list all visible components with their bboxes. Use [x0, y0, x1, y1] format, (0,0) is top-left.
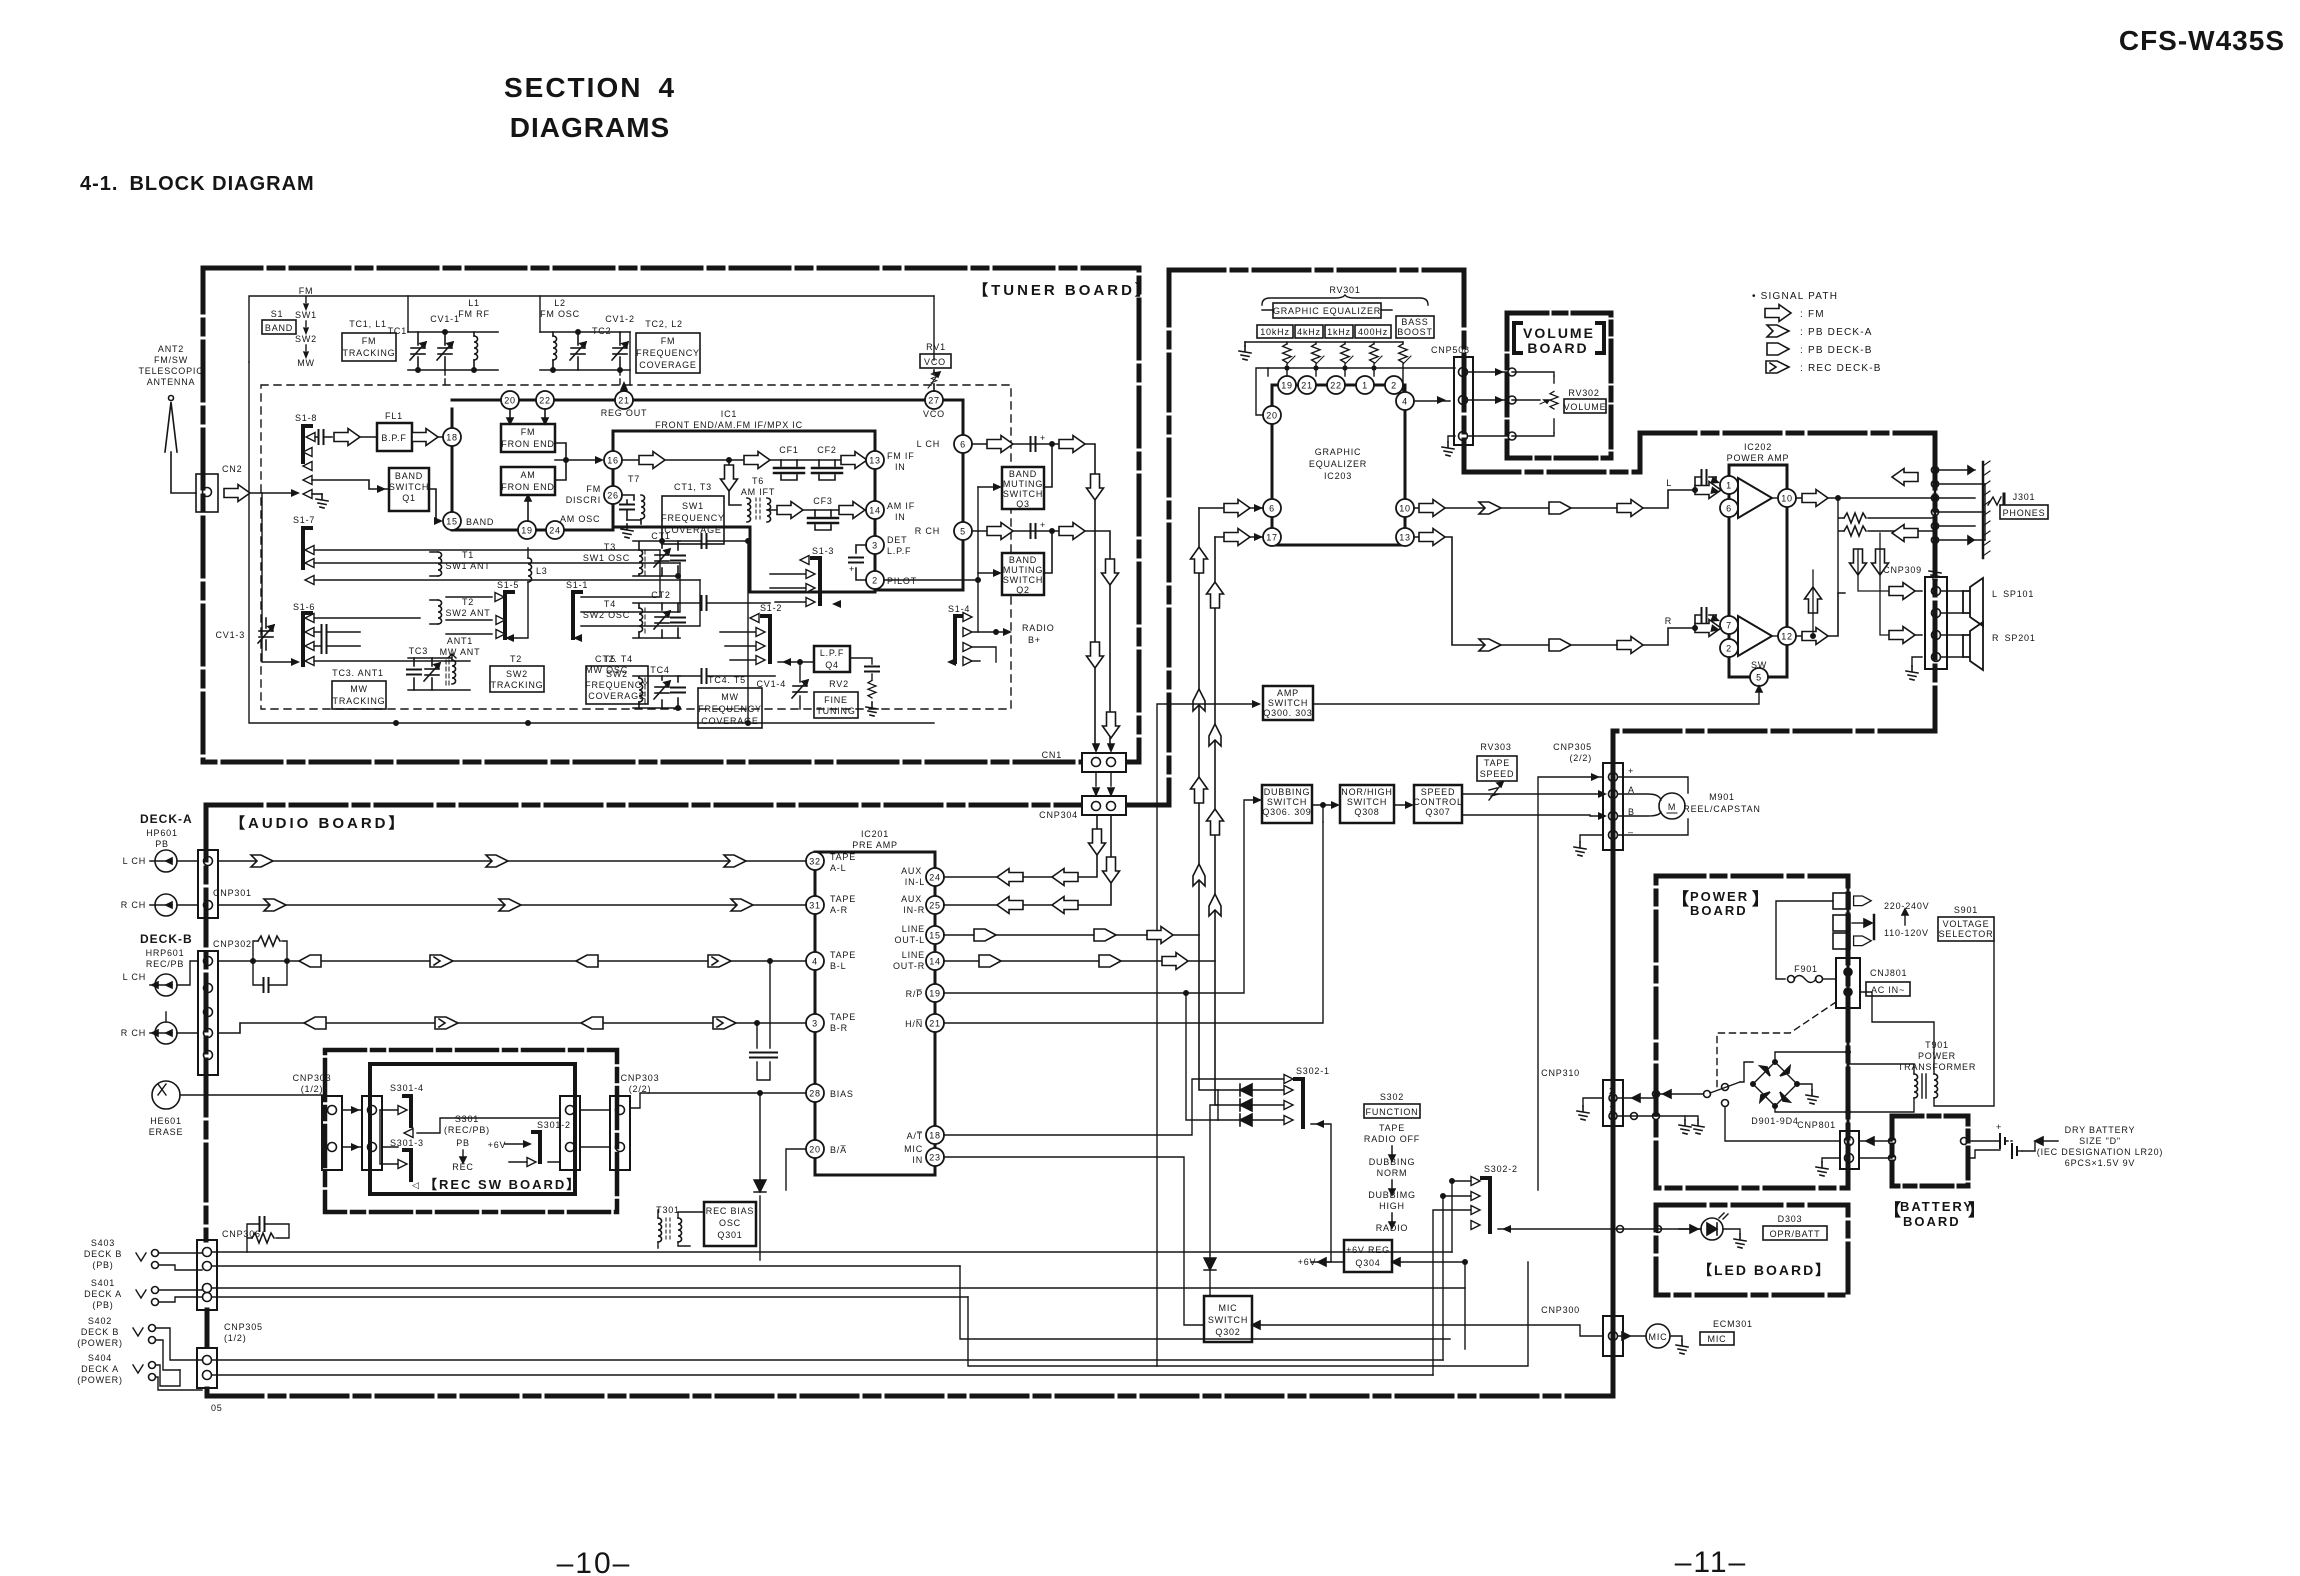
wire Q3 output to L line	[1044, 444, 1052, 487]
boxed label 400Hz	[1355, 325, 1391, 338]
IC203 pin 13	[1396, 528, 1414, 546]
svg-text:BAND: BAND	[466, 517, 494, 527]
svg-text:SECTION 4: SECTION 4	[504, 72, 676, 103]
wire S302-2 common to CNP310 column	[1498, 1228, 1700, 1230]
svg-text:3: 3	[872, 541, 878, 551]
svg-text:AM: AM	[520, 470, 535, 480]
svg-text:–10–: –10–	[557, 1547, 632, 1576]
svg-text:S402: S402	[88, 1316, 112, 1326]
svg-text:MW: MW	[297, 358, 315, 368]
wire H/N riser to dubbing junction	[1322, 805, 1324, 822]
svg-text:FREQUENCY: FREQUENCY	[585, 680, 649, 690]
svg-text:Q300. 303: Q300. 303	[1263, 708, 1312, 718]
svg-text:MIC: MIC	[1219, 1303, 1238, 1313]
boxed label BASS BOOST	[1396, 316, 1434, 338]
EQ output bus to CNP508	[1268, 368, 1455, 376]
svg-text:BAND: BAND	[1009, 469, 1037, 479]
op-amp triangle L	[1738, 478, 1772, 518]
block AMP SWITCH Q300,303	[1263, 686, 1313, 720]
svg-text:】: 】	[1968, 1200, 1985, 1220]
changeover switch	[1704, 1091, 1711, 1098]
svg-text:D901-9D4: D901-9D4	[1751, 1116, 1798, 1126]
svg-text:IC1: IC1	[721, 409, 737, 419]
IC201 pin 4 TAPE B-L	[806, 952, 824, 970]
svg-text:COVERAGE: COVERAGE	[588, 691, 645, 701]
svg-text:12: 12	[1781, 632, 1793, 642]
svg-text:HRP601: HRP601	[146, 948, 185, 958]
svg-text:TAPE: TAPE	[1484, 758, 1510, 768]
svg-text:CNP309: CNP309	[1883, 565, 1922, 575]
power board border	[1656, 876, 1848, 1188]
EQ wiper arrows to pins	[1287, 356, 1411, 364]
input capacitor to pin 1	[1695, 477, 1716, 490]
IC201 pin 3 TAPE B-R	[806, 1014, 824, 1032]
tank T4 SW2 OSC	[583, 599, 630, 620]
IC203 pin 17	[1263, 528, 1281, 546]
svg-text:R: R	[1665, 616, 1672, 626]
svg-text:(POWER): (POWER)	[77, 1375, 123, 1385]
EQ resistors RV301 a-e	[1283, 344, 1292, 363]
svg-text:FRON END: FRON END	[501, 482, 554, 492]
svg-text:PHONES: PHONES	[2003, 508, 2046, 518]
svg-text:DISCRI: DISCRI	[566, 495, 601, 505]
svg-text:RV303: RV303	[1480, 742, 1511, 752]
feedback resistors at phones	[1838, 498, 1935, 593]
svg-text:FINE: FINE	[824, 695, 848, 705]
wire pin 20 to EQ rail	[1256, 368, 1268, 415]
battery board label	[1884, 1199, 1985, 1229]
volume board wiring	[1512, 372, 1554, 436]
svg-text:CNP801: CNP801	[1797, 1120, 1836, 1130]
IC201 pin 20 B/A	[806, 1140, 824, 1158]
svg-text:B+: B+	[1028, 635, 1041, 645]
svg-text:CNJ801: CNJ801	[1870, 968, 1907, 978]
svg-text:SW2: SW2	[506, 669, 528, 679]
tuner gang dashed frame	[261, 385, 1011, 709]
power bus column	[1611, 731, 1616, 1396]
svg-text:20: 20	[504, 396, 516, 406]
svg-text:HE601: HE601	[150, 1116, 182, 1126]
svg-text:L.P.F: L.P.F	[820, 648, 844, 658]
label S301 REC/PB	[444, 1114, 490, 1172]
wire from CNP303 outer down to T301	[620, 1170, 658, 1210]
RC network at deck-B input	[253, 941, 287, 961]
audio board top border	[206, 803, 1169, 808]
audio board left border	[204, 805, 209, 1240]
transformer T1 SW1 ANT	[445, 550, 490, 571]
svg-text:B-R: B-R	[830, 1023, 848, 1033]
svg-text:T901: T901	[1925, 1040, 1949, 1050]
long riser from tank bus to bottom rail	[747, 541, 749, 723]
IC1 pins 19 and 24 AM OSC	[518, 521, 536, 539]
svg-text:T301: T301	[656, 1205, 680, 1215]
svg-text:S1-1: S1-1	[566, 580, 588, 590]
svg-text:DUBBING: DUBBING	[1264, 787, 1311, 797]
svg-text:18: 18	[929, 1131, 941, 1141]
wire LINE OUT-R pin 14 to riser	[944, 960, 1215, 962]
svg-text:R CH: R CH	[915, 526, 940, 536]
svg-text:L.P.F: L.P.F	[887, 546, 911, 556]
svg-text:SELECTOR: SELECTOR	[1939, 929, 1994, 939]
svg-text:RADIO OFF: RADIO OFF	[1364, 1134, 1420, 1144]
svg-text:NOR/HIGH: NOR/HIGH	[1341, 787, 1392, 797]
svg-text:T3: T3	[604, 542, 616, 552]
svg-text:+6V: +6V	[1298, 1257, 1317, 1267]
svg-text:CT2: CT2	[651, 590, 670, 600]
wire deck-B L to pin 4	[218, 960, 806, 962]
svg-text:CONTROL: CONTROL	[1413, 797, 1463, 807]
coil L2 FM OSC	[540, 298, 580, 319]
connector CN2	[196, 474, 218, 512]
svg-text:L: L	[1666, 478, 1672, 488]
FM arrow into pin 13	[841, 452, 867, 469]
legend PB DECK-B arrow	[1767, 343, 1789, 355]
svg-text:A-R: A-R	[830, 905, 848, 915]
IC1 pin 21	[615, 391, 633, 409]
IC202 pin 7	[1720, 616, 1738, 634]
svg-text:CNP508: CNP508	[1431, 345, 1470, 355]
svg-text:+6V: +6V	[488, 1140, 507, 1150]
svg-text:【: 【	[1672, 889, 1689, 909]
svg-text:+: +	[1040, 520, 1046, 530]
svg-text:L2: L2	[554, 298, 566, 308]
svg-text:FREQUENCY: FREQUENCY	[698, 704, 762, 714]
svg-text:: PB DECK-A: : PB DECK-A	[1800, 327, 1873, 338]
label HP601 PB	[146, 828, 178, 849]
svg-text:FUNCTION: FUNCTION	[1366, 1107, 1419, 1117]
power board label	[1672, 889, 1769, 918]
svg-text:DECK B: DECK B	[84, 1249, 122, 1259]
svg-text:GRAPHIC EQUALIZER: GRAPHIC EQUALIZER	[1273, 306, 1381, 316]
svg-text:BAND: BAND	[1009, 555, 1037, 565]
svg-text:OPR/BATT: OPR/BATT	[1770, 1229, 1821, 1239]
svg-text:CNP302: CNP302	[213, 939, 252, 949]
riser bus R from line out	[1215, 537, 1218, 1105]
wire CN2 to S1-8	[251, 492, 296, 494]
open arrows into jack	[1892, 469, 1918, 486]
svg-text:4-1. BLOCK DIAGRAM: 4-1. BLOCK DIAGRAM	[80, 173, 315, 195]
svg-text:SW1 OSC: SW1 OSC	[583, 553, 630, 563]
IC202 pin 12	[1778, 627, 1796, 645]
svg-text:SW1 ANT: SW1 ANT	[445, 561, 490, 571]
legend FM arrow	[1765, 305, 1791, 322]
svg-text:24: 24	[549, 526, 561, 536]
IC1 top bus REG OUT	[452, 399, 963, 402]
svg-text:T5: T5	[604, 654, 616, 664]
svg-text:ECM301: ECM301	[1713, 1319, 1753, 1329]
IC203 pin 6	[1263, 499, 1281, 517]
svg-text:SWITCH: SWITCH	[1003, 575, 1043, 585]
block SPEED CONTROL Q307	[1414, 785, 1462, 823]
svg-text:T4: T4	[604, 599, 616, 609]
svg-text:S401: S401	[91, 1278, 115, 1288]
svg-text:VOLUME: VOLUME	[1564, 402, 1607, 412]
svg-text:SWITCH: SWITCH	[1267, 797, 1307, 807]
wire S1-8 row to Q1	[312, 480, 389, 489]
ground at CNP305 minus	[1580, 835, 1603, 842]
svg-text:AUX: AUX	[901, 894, 922, 904]
svg-text:IN-L: IN-L	[905, 877, 925, 887]
svg-text:Q2: Q2	[1016, 585, 1030, 595]
FM OSC tank rails	[540, 332, 630, 370]
transformer T2 SW2 ANT	[445, 597, 490, 618]
svg-text:(1/2): (1/2)	[224, 1333, 247, 1343]
down arrows to speaker connector	[1858, 526, 1880, 588]
selector arrows	[1854, 896, 1872, 906]
wire AUX IN-R pin 25	[944, 814, 1111, 905]
svg-text:SW2 ANT: SW2 ANT	[445, 608, 490, 618]
svg-text:: REC DECK-B: : REC DECK-B	[1800, 363, 1882, 374]
svg-text:Q301: Q301	[717, 1230, 742, 1240]
svg-text:IN: IN	[912, 1155, 923, 1165]
svg-text:24: 24	[929, 873, 941, 883]
svg-text:REC BIAS: REC BIAS	[706, 1206, 754, 1216]
svg-text:OUT-L: OUT-L	[894, 935, 925, 945]
svg-text:TC1, L1: TC1, L1	[349, 319, 387, 329]
wire R/P pin 19	[944, 800, 1260, 1120]
wire AMP SWITCH to IC202 pin 5	[1313, 690, 1759, 704]
svg-text:SPEED: SPEED	[1421, 787, 1456, 797]
svg-text:1: 1	[1726, 481, 1732, 491]
svg-text:POWER AMP: POWER AMP	[1727, 453, 1790, 463]
svg-text:S1-4: S1-4	[948, 604, 970, 614]
svg-text:F901: F901	[1794, 964, 1818, 974]
svg-text:MUTING: MUTING	[1003, 565, 1043, 575]
svg-text:MIC: MIC	[1649, 1332, 1668, 1342]
svg-text:S1-3: S1-3	[812, 546, 834, 556]
svg-text:25: 25	[929, 901, 941, 911]
svg-text:5: 5	[1756, 673, 1762, 683]
svg-text:Q4: Q4	[825, 660, 839, 670]
svg-text:M901: M901	[1709, 792, 1735, 802]
IC1 left bus	[451, 409, 454, 528]
IC203 pin 10	[1396, 499, 1414, 517]
wire Q307 to CNP305 pin B	[1462, 815, 1603, 816]
IC1 pin 5 R CH	[954, 522, 972, 540]
svg-text:FRONT END/AM.FM IF/MPX IC: FRONT END/AM.FM IF/MPX IC	[655, 420, 803, 430]
wire AM FRON END to AM OSC bus	[527, 499, 529, 521]
svg-text:S1-2: S1-2	[760, 603, 782, 613]
S1 BAND boxed label	[262, 320, 296, 334]
svg-text:S1-8: S1-8	[295, 413, 317, 423]
wire A/T pin 18	[944, 1079, 1284, 1135]
svg-text:RV2: RV2	[829, 679, 849, 689]
bias wire pin 28 to CNP303	[631, 1093, 806, 1108]
svg-text:FM OSC: FM OSC	[540, 309, 580, 319]
switch S403 DECK B (PB)	[84, 1238, 122, 1270]
svg-text:21: 21	[1301, 381, 1313, 391]
block MIC SWITCH Q302	[1204, 1296, 1252, 1342]
svg-text:1kHz: 1kHz	[1327, 327, 1351, 337]
wire into LED	[1679, 1228, 1701, 1230]
dry battery label	[2037, 1125, 2163, 1168]
IC1 pin 2 PILOT	[866, 571, 884, 589]
wire S1-2 to L.P.F	[778, 661, 814, 663]
speaker SP201 R	[1941, 635, 1963, 657]
svg-text:VCO: VCO	[923, 409, 945, 419]
long wires lower area	[960, 1262, 1528, 1366]
svg-text:T2: T2	[510, 654, 522, 664]
tuner board border	[203, 268, 1139, 762]
svg-text:NORM: NORM	[1377, 1168, 1408, 1178]
switch S402 DECK B (POWER)	[77, 1316, 123, 1348]
svg-text:TAPE: TAPE	[830, 894, 856, 904]
svg-text:ANT1: ANT1	[447, 636, 473, 646]
IC1 labels	[655, 409, 803, 430]
svg-text:AM IFT: AM IFT	[741, 487, 775, 497]
svg-text:S403: S403	[91, 1238, 115, 1248]
svg-text:SWITCH: SWITCH	[1003, 489, 1043, 499]
led board border	[1656, 1205, 1848, 1295]
svg-text:FREQUENCY: FREQUENCY	[636, 348, 700, 358]
IC201 pin 14 LINE OUT-R	[926, 952, 944, 970]
erase head HE601	[152, 1081, 180, 1109]
boxed label 10kHz	[1257, 325, 1293, 338]
svg-text:S301: S301	[455, 1114, 479, 1124]
svg-text:PRE AMP: PRE AMP	[852, 840, 898, 850]
svg-text:CV1-2: CV1-2	[605, 314, 635, 324]
svg-text:05: 05	[211, 1403, 223, 1413]
svg-text:H/N̅: H/N̅	[905, 1019, 923, 1029]
junction dots FM RF tank	[416, 368, 420, 372]
svg-text:CN2: CN2	[222, 464, 242, 474]
svg-text:27: 27	[928, 396, 940, 406]
tank T3 SW1 OSC	[583, 542, 630, 563]
svg-text:GRAPHIC: GRAPHIC	[1315, 447, 1362, 457]
svg-text:Q3: Q3	[1016, 499, 1030, 509]
wire CN2 feed to switch column	[262, 493, 296, 662]
svg-text:L CH: L CH	[917, 439, 940, 449]
FM arrows down the L/R drop wires	[1087, 474, 1104, 500]
svg-text:SIZE "D": SIZE "D"	[2079, 1136, 2121, 1146]
svg-text:4kHz: 4kHz	[1297, 327, 1321, 337]
svg-text:D303: D303	[1778, 1214, 1803, 1224]
svg-text:S302: S302	[1380, 1092, 1404, 1102]
svg-text:FM/SW: FM/SW	[154, 355, 188, 365]
volume board border	[1507, 313, 1611, 458]
block BAND SWITCH Q1	[389, 468, 429, 511]
svg-text:REG OUT: REG OUT	[601, 408, 648, 418]
svg-text:MW: MW	[721, 692, 739, 702]
ground EQ rail	[1244, 342, 1246, 346]
svg-text:AM IF: AM IF	[887, 501, 915, 511]
wire deck-A R to pin 31	[218, 904, 806, 906]
svg-text:DECK-A: DECK-A	[140, 812, 193, 826]
connector CNP303 (2/2) outer	[621, 1073, 660, 1094]
svg-text:ANT2: ANT2	[158, 344, 184, 354]
svg-text:16: 16	[607, 456, 619, 466]
EQ top rail	[1245, 341, 1403, 343]
IC203 pin 4	[1396, 392, 1414, 410]
wire deck-A L to pin 32	[218, 860, 806, 862]
svg-text:BIAS: BIAS	[830, 1089, 854, 1099]
svg-text:AUX: AUX	[901, 866, 922, 876]
svg-text:B-L: B-L	[830, 961, 846, 971]
svg-text:PILOT: PILOT	[887, 576, 917, 586]
svg-text:19: 19	[929, 989, 941, 999]
wire pin 21 to gang dashed line	[623, 387, 625, 391]
svg-text:L CH: L CH	[123, 972, 146, 982]
svg-text:23: 23	[929, 1153, 941, 1163]
wire + feed from below	[1538, 777, 1603, 1190]
down arrows under CNP304	[1089, 829, 1106, 855]
diodes at S302-1	[1218, 1090, 1284, 1120]
IC201 pin 23 MIC IN	[926, 1148, 944, 1166]
wire pin 12 to phones net	[1796, 593, 1838, 636]
svg-text:IC202: IC202	[1744, 442, 1772, 452]
svg-text:R SP201: R SP201	[1992, 633, 2036, 643]
connector CNP305 (2/2)	[1553, 742, 1592, 763]
svg-text:+6V REG: +6V REG	[1346, 1245, 1390, 1255]
svg-text:6: 6	[960, 440, 966, 450]
svg-text:Q1: Q1	[402, 493, 416, 503]
svg-text:M: M	[1668, 802, 1676, 812]
svg-text:FREQUENCY: FREQUENCY	[661, 513, 725, 523]
volume board label	[1523, 325, 1595, 356]
IC1 pin 27	[925, 391, 943, 409]
IC202 pin 2	[1720, 639, 1738, 657]
wire S302-1 common down to +6V REG	[1311, 1124, 1344, 1262]
wire into +6V REG right	[1392, 1262, 1465, 1349]
svg-text:S302-2: S302-2	[1484, 1164, 1518, 1174]
wire MIC line from pin 23 into CNP300	[1252, 1325, 1603, 1336]
svg-text:CNP303: CNP303	[293, 1073, 332, 1083]
svg-text:Q307: Q307	[1425, 807, 1450, 817]
IC201 pin 21 H/N	[926, 1014, 944, 1032]
wire Q1 to pin 15	[429, 489, 440, 521]
svg-text:2: 2	[1391, 381, 1397, 391]
svg-text:18: 18	[446, 433, 458, 443]
wire T6 to pin 14	[767, 509, 866, 511]
svg-text:6: 6	[1269, 504, 1275, 514]
svg-text:IC203: IC203	[1324, 471, 1352, 481]
svg-text:HP601: HP601	[146, 828, 178, 838]
svg-text:CNP305: CNP305	[224, 1322, 263, 1332]
svg-text:110-120V: 110-120V	[1884, 928, 1929, 938]
selector loop wiring	[1776, 901, 1833, 979]
boxed label 4kHz	[1295, 325, 1323, 338]
IC201 pin 32 TAPE A-L	[806, 852, 824, 870]
audio board bottom border	[207, 1394, 1613, 1399]
wire H/N pin 21	[944, 822, 1323, 1023]
svg-text:MW ANT: MW ANT	[440, 647, 481, 657]
svg-text:DECK-B: DECK-B	[140, 932, 193, 946]
svg-text:TRACKING: TRACKING	[343, 348, 396, 358]
svg-text:TAPE: TAPE	[830, 1012, 856, 1022]
IC202 pin 1	[1720, 476, 1738, 494]
IC1 main outline	[613, 431, 875, 592]
diode at bias line	[759, 1093, 761, 1260]
svg-text:6: 6	[1726, 504, 1732, 514]
op-amp triangle R	[1738, 616, 1772, 656]
svg-text:TAPE: TAPE	[1379, 1123, 1405, 1133]
long control wires to the right	[212, 1252, 1465, 1375]
FM RF tank rails	[408, 332, 498, 370]
wire Q308 to Q307	[1394, 804, 1410, 806]
svg-text:MW: MW	[350, 684, 368, 694]
svg-text:2: 2	[1726, 644, 1732, 654]
IC201 pin 19 R/P	[926, 984, 944, 1002]
svg-text:6PCS×1.5V 9V: 6PCS×1.5V 9V	[2065, 1158, 2135, 1168]
svg-text:DECK B: DECK B	[81, 1327, 119, 1337]
svg-text:(2/2): (2/2)	[629, 1084, 652, 1094]
svg-text:+: +	[849, 564, 855, 574]
boxed label GRAPHIC EQUALIZER	[1273, 303, 1381, 318]
svg-text:19: 19	[521, 526, 533, 536]
svg-text:: PB DECK-B: : PB DECK-B	[1800, 345, 1873, 356]
svg-text:21: 21	[618, 396, 630, 406]
svg-text:14: 14	[869, 506, 881, 516]
